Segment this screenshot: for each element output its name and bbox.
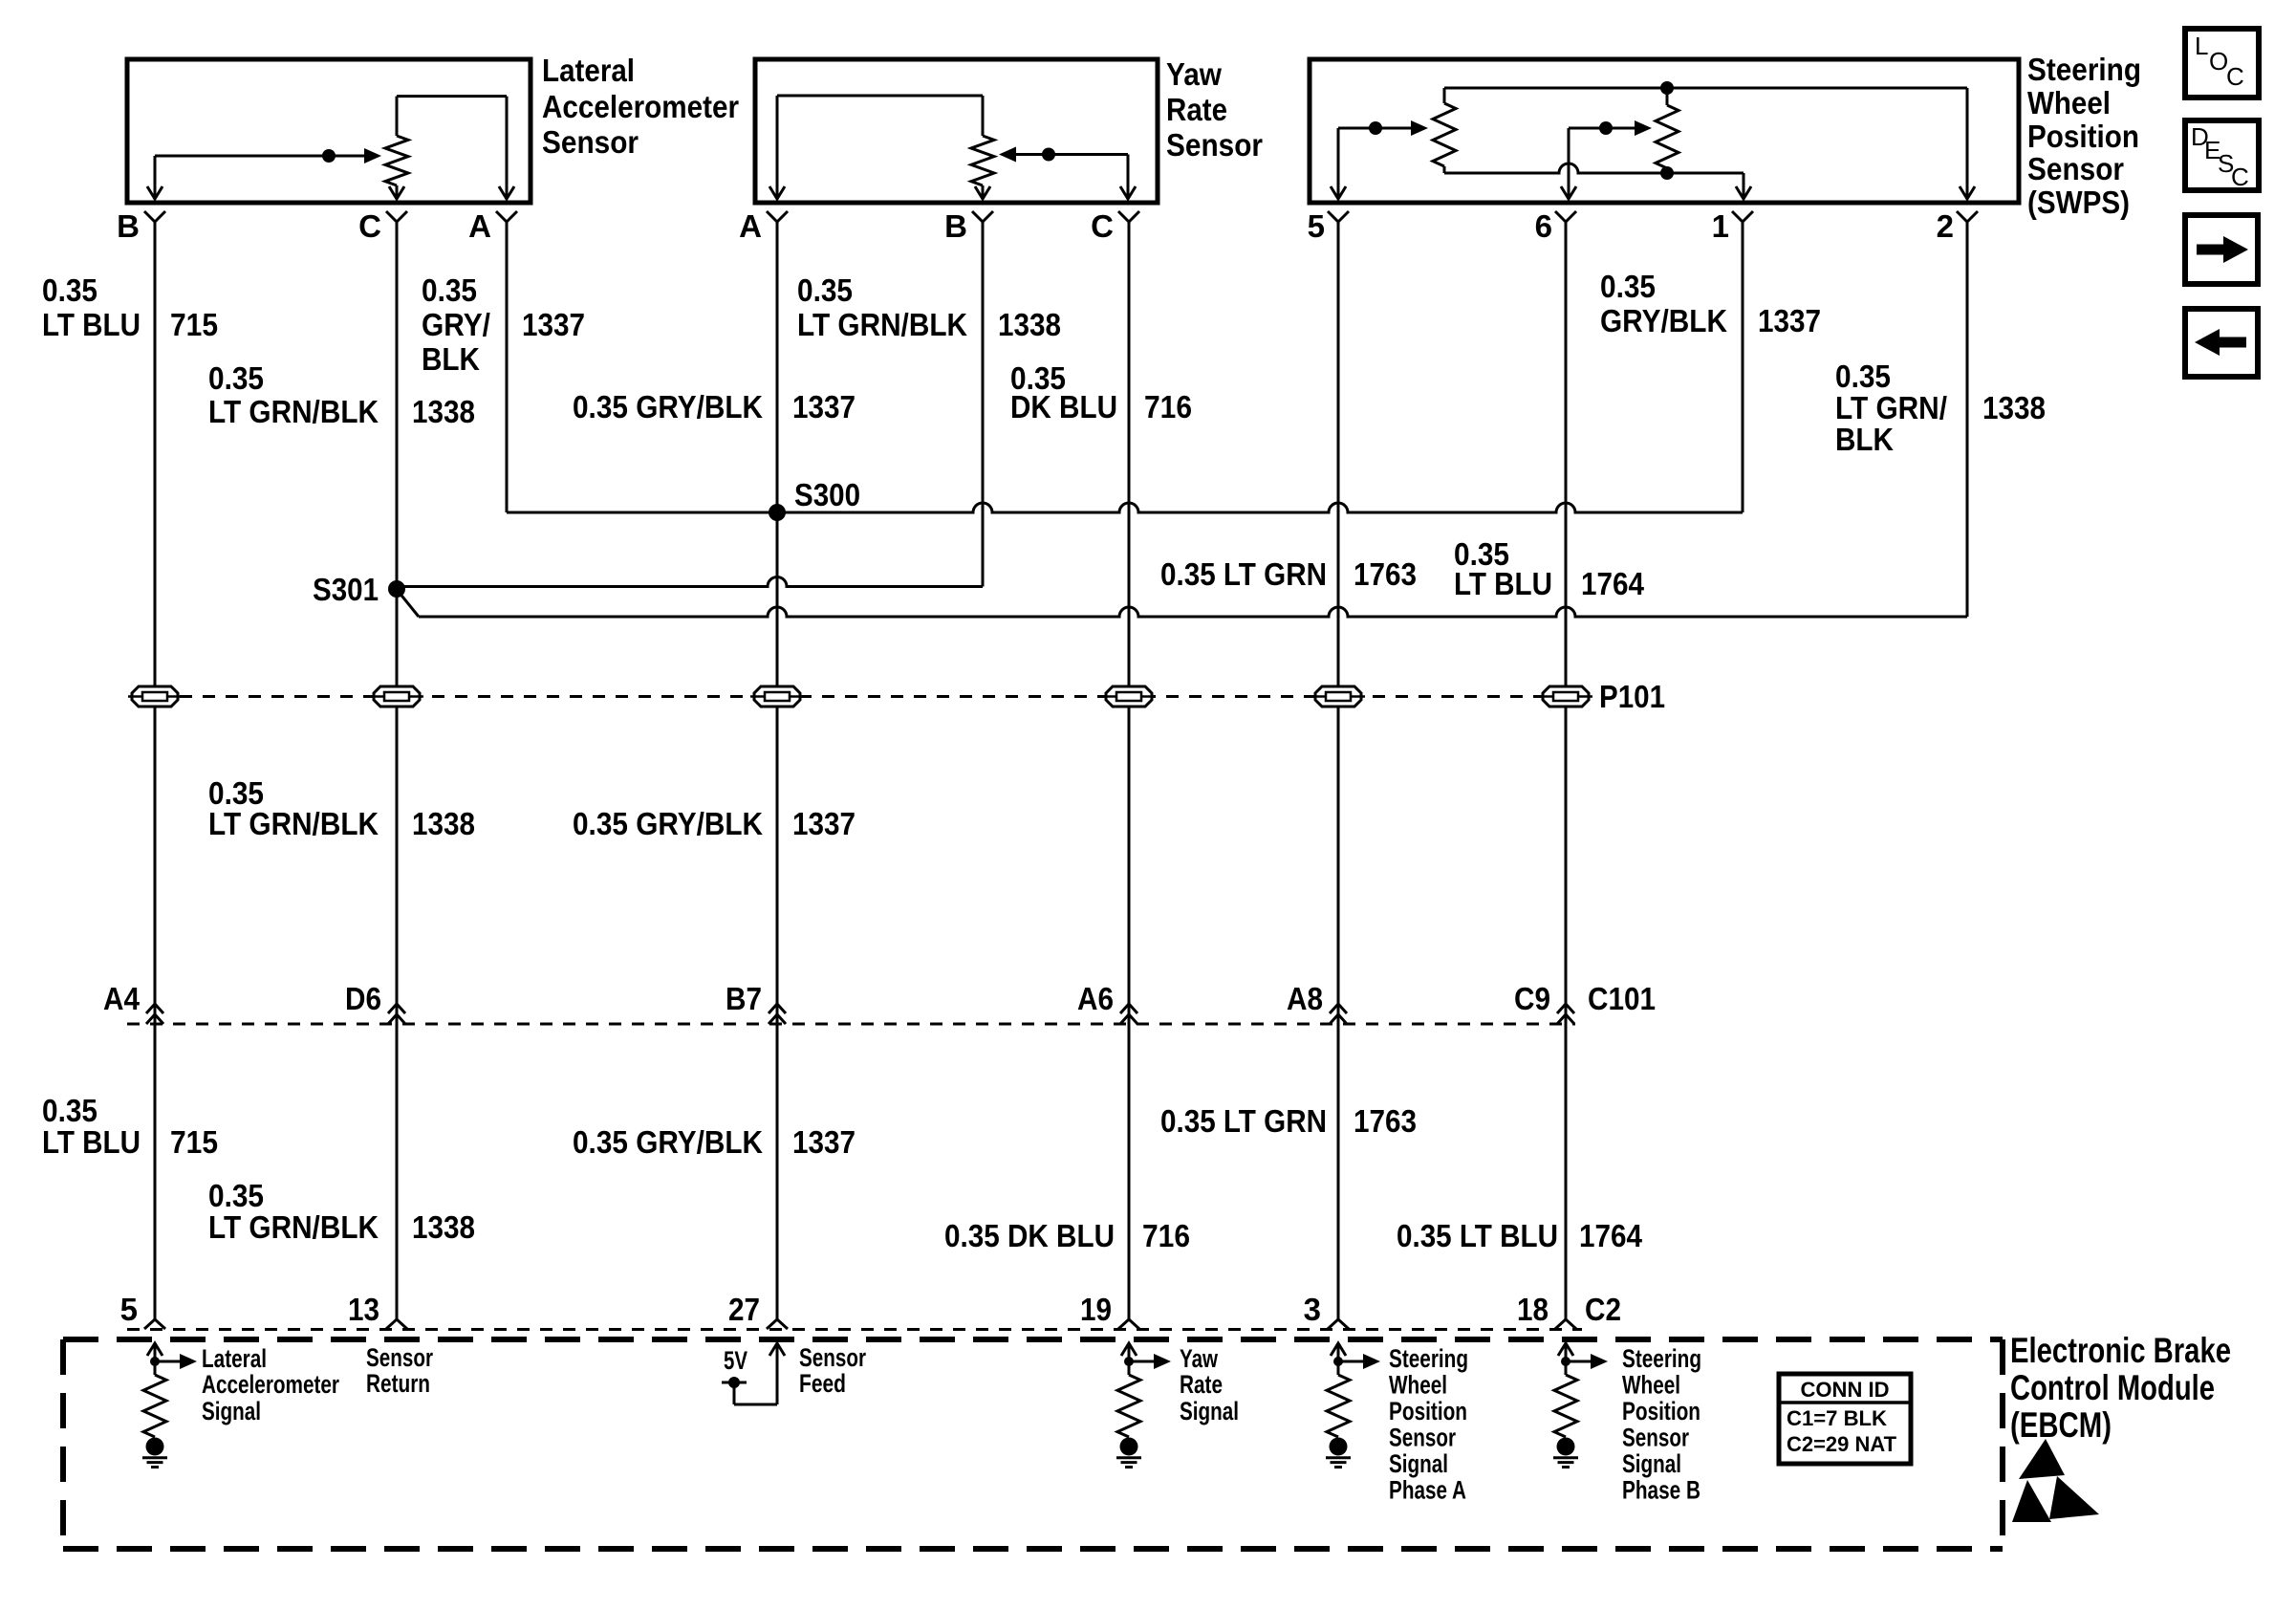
label 5V <box>724 1346 747 1375</box>
connector C101 chevrons pin A6 <box>1120 1004 1137 1024</box>
svg-text:D6: D6 <box>345 981 381 1016</box>
svg-text:Signal: Signal <box>1180 1397 1239 1425</box>
label S300 <box>794 477 860 512</box>
connector fork below yaw pin B <box>972 211 993 231</box>
arrow into box bottom at SWPS pin 6 <box>1561 186 1576 199</box>
EBCM 5V sensor feed (pin 27) <box>722 1343 785 1404</box>
connector fork below SWPS pin 2 <box>1957 211 1978 231</box>
arrowhead wiper (lat accel) <box>364 148 381 163</box>
arrow into box bottom at SWPS pin 1 <box>1736 186 1751 199</box>
connector fork below yaw pin C <box>1118 211 1139 231</box>
svg-text:A: A <box>468 208 491 244</box>
connector P101 pass-through symbol A <box>128 686 182 707</box>
svg-text:5: 5 <box>120 1292 138 1327</box>
svg-text:LT GRN/: LT GRN/ <box>1835 390 1947 425</box>
svg-text:0.35: 0.35 <box>42 272 97 308</box>
label 0.35 LT GRN (x7 low) <box>1160 1103 1327 1139</box>
label 0.35 LT GRN/BLK (x2 low) <box>208 1178 379 1245</box>
svg-text:5: 5 <box>1308 208 1325 244</box>
junction dot top rail (SWPS) <box>1660 81 1674 95</box>
svg-text:0.35: 0.35 <box>1835 359 1891 394</box>
connector fork EBCM pin 18 <box>1555 1319 1576 1329</box>
svg-text:P101: P101 <box>1599 679 1665 714</box>
EBCM yaw rate signal input (pin 19) <box>1116 1343 1171 1468</box>
label 1337 (yaw A) <box>792 389 856 424</box>
junction dot on yaw wiper wire <box>1042 148 1055 162</box>
yaw rate sensor box <box>755 59 1158 203</box>
EBCM lateral accelerometer signal input (pin 5) <box>142 1343 197 1468</box>
svg-text:Sensor: Sensor <box>1166 127 1263 163</box>
label S301 <box>313 572 379 607</box>
label 715 (top) <box>170 307 218 342</box>
svg-text:A: A <box>739 208 762 244</box>
svg-text:CONN ID: CONN ID <box>1801 1378 1890 1402</box>
svg-text:C101: C101 <box>1588 981 1656 1016</box>
wiper arrow (SWPS right) from pin 6 <box>1569 128 1636 197</box>
svg-text:A4: A4 <box>103 981 141 1016</box>
pin label D6 (C101) <box>345 981 381 1016</box>
connector C101 chevrons pin A8 <box>1330 1004 1347 1024</box>
svg-text:Feed: Feed <box>799 1369 846 1398</box>
svg-text:Position: Position <box>2027 119 2139 154</box>
svg-text:0.35 DK BLU: 0.35 DK BLU <box>944 1218 1115 1253</box>
svg-text:B: B <box>944 208 967 244</box>
svg-text:BLK: BLK <box>422 341 480 377</box>
label 0.35 DK BLU (yaw C) <box>1010 360 1117 424</box>
svg-text:C: C <box>358 208 381 244</box>
svg-text:0.35: 0.35 <box>208 360 264 396</box>
svg-text:1338: 1338 <box>412 806 475 841</box>
svg-text:Sensor: Sensor <box>2027 151 2124 186</box>
arrowhead wiper (yaw rate) <box>999 147 1016 163</box>
svg-text:GRY/: GRY/ <box>422 307 490 342</box>
pin letter A (yaw) <box>739 208 762 244</box>
wire SWPS bottom rail to pin 1 <box>1444 163 1744 197</box>
svg-text:BLK: BLK <box>1835 422 1894 457</box>
junction dot bottom rail (SWPS) <box>1660 166 1674 180</box>
label Yaw Rate Signal <box>1180 1344 1239 1425</box>
label 1338 (lat C top) <box>412 394 475 429</box>
wire S301 upper run 1338 <box>397 577 983 587</box>
wiper arrow (yaw rate) from pin C <box>1012 155 1128 198</box>
steering wheel position sensor box <box>1310 59 2019 203</box>
svg-text:(SWPS): (SWPS) <box>2027 185 2130 220</box>
pin letter C (lat) <box>358 208 381 244</box>
connector fork below SWPS pin 5 <box>1328 211 1349 231</box>
svg-text:Signal: Signal <box>1622 1449 1681 1478</box>
potentiometer (lateral accel sensor) <box>385 97 408 197</box>
svg-text:0.35: 0.35 <box>42 1093 97 1128</box>
svg-text:1337: 1337 <box>1758 303 1821 338</box>
label 716 (yaw C) <box>1144 389 1192 424</box>
svg-text:0.35 LT GRN: 0.35 LT GRN <box>1160 1103 1327 1139</box>
svg-text:27: 27 <box>728 1292 760 1327</box>
connector P101 dashed line <box>134 695 1590 698</box>
svg-text:S300: S300 <box>794 477 860 512</box>
svg-text:1337: 1337 <box>792 389 856 424</box>
svg-text:0.35 GRY/BLK: 0.35 GRY/BLK <box>573 1124 763 1160</box>
arrow into box bottom at lat B pin <box>147 186 162 199</box>
svg-text:1764: 1764 <box>1579 1218 1643 1253</box>
connector C101 chevrons pin B7 <box>769 1004 786 1024</box>
pin label A4 (C101) <box>103 981 141 1016</box>
svg-text:C: C <box>2226 62 2244 91</box>
svg-text:Lateral: Lateral <box>202 1344 267 1373</box>
svg-text:Steering: Steering <box>1389 1344 1468 1373</box>
label 0.35 GRY/BLK (x4 low) <box>573 1124 763 1160</box>
svg-text:1338: 1338 <box>1982 390 2046 425</box>
pin number 13 (EBCM) <box>348 1292 379 1327</box>
label Sensor Return <box>366 1343 433 1398</box>
label 0.35 DK BLU (x6 low) <box>944 1218 1115 1253</box>
label 0.35 LT BLU (x8 low) <box>1397 1218 1558 1253</box>
svg-text:Signal: Signal <box>1389 1449 1448 1478</box>
junction dot on lat wiper wire <box>322 149 336 163</box>
wire 1338 LT GRN/BLK SWPS-2 drop <box>1966 231 1969 617</box>
pin letter B (yaw) <box>944 208 967 244</box>
svg-text:1763: 1763 <box>1354 556 1417 592</box>
svg-text:C9: C9 <box>1514 981 1550 1016</box>
svg-text:715: 715 <box>170 307 218 342</box>
connector P101 pass-through symbol D <box>1102 686 1156 707</box>
label 0.35 LT GRN/BLK (yaw B) <box>797 272 967 342</box>
wire 716 DK BLU yaw-C to EBCM-19 <box>1128 231 1131 1319</box>
lateral accelerometer sensor box <box>127 59 531 203</box>
connector fork EBCM pin 3 <box>1328 1319 1349 1329</box>
wire 1763 LT GRN SWPS-5 to EBCM-3 <box>1337 231 1340 1319</box>
pin number 1 (SWPS) <box>1712 208 1729 244</box>
wiper arrow (lat accel) from pin B <box>155 156 370 197</box>
svg-text:LT BLU: LT BLU <box>42 1124 141 1160</box>
connector fork below lat pin A <box>496 211 517 231</box>
arrow into box bottom at SWPS pin 5 <box>1331 186 1346 199</box>
svg-text:1338: 1338 <box>412 394 475 429</box>
svg-text:Sensor: Sensor <box>366 1343 433 1372</box>
label Steering Wheel Position Sensor (SWPS) <box>2027 52 2141 220</box>
label 1764 (mid) <box>1581 566 1645 601</box>
svg-text:B: B <box>117 208 140 244</box>
EBCM SWPS phase A input (pin 3) <box>1326 1343 1380 1468</box>
svg-text:A6: A6 <box>1077 981 1114 1016</box>
EBCM SWPS phase B input (pin 18) <box>1553 1343 1608 1468</box>
arrowhead wiper right (SWPS) <box>1635 120 1652 136</box>
svg-text:DK BLU: DK BLU <box>1010 389 1117 424</box>
svg-text:0.35 GRY/BLK: 0.35 GRY/BLK <box>573 389 763 424</box>
label 1338 (x2 low) <box>412 1209 475 1245</box>
connector C101 chevrons pin C9 <box>1557 1004 1574 1024</box>
junction dot on SWPS pin5 wiper <box>1369 121 1382 135</box>
CONN ID table <box>1779 1374 1911 1464</box>
svg-text:A8: A8 <box>1287 981 1323 1016</box>
svg-text:1337: 1337 <box>792 806 856 841</box>
svg-text:0.35: 0.35 <box>208 1178 264 1213</box>
connector C101 chevrons pin A4 <box>146 1004 163 1024</box>
svg-text:L: L <box>2195 32 2208 60</box>
svg-text:1337: 1337 <box>792 1124 856 1160</box>
EBCM module dashed box <box>63 1339 2003 1549</box>
svg-text:B7: B7 <box>726 981 762 1016</box>
connector fork below SWPS pin 6 <box>1555 211 1576 231</box>
pin number 6 (SWPS) <box>1535 208 1552 244</box>
wire S301 lower run 1338 to SWPS-2 <box>399 592 1967 617</box>
svg-text:Yaw: Yaw <box>1180 1344 1219 1373</box>
svg-text:1764: 1764 <box>1581 566 1645 601</box>
label 1764 (x8 low) <box>1579 1218 1643 1253</box>
svg-text:C: C <box>2231 163 2249 191</box>
svg-text:Steering: Steering <box>1622 1344 1701 1373</box>
label 1338 (x2 mid) <box>412 806 475 841</box>
label C101 <box>1588 981 1656 1016</box>
svg-text:716: 716 <box>1142 1218 1190 1253</box>
svg-text:0.35 GRY/BLK: 0.35 GRY/BLK <box>573 806 763 841</box>
connector fork EBCM pin 27 <box>767 1319 788 1329</box>
wire 1337 GRY/BLK yaw-A to EBCM-27 <box>776 231 779 1319</box>
connector fork below lat pin B <box>144 211 165 231</box>
pin number 19 (EBCM) <box>1080 1292 1112 1327</box>
label 1763 (mid) <box>1354 556 1417 592</box>
svg-text:0.35: 0.35 <box>797 272 853 308</box>
svg-text:Steering: Steering <box>2027 52 2141 87</box>
svg-text:Wheel: Wheel <box>1389 1371 1447 1400</box>
svg-text:Wheel: Wheel <box>2027 85 2111 120</box>
svg-text:LT BLU: LT BLU <box>42 307 141 342</box>
pin letter B (lat) <box>117 208 140 244</box>
connector C101 chevrons pin D6 <box>388 1004 405 1024</box>
arrow into box bottom at lat C pin <box>389 186 404 199</box>
junction dot on SWPS pin6 wiper <box>1599 121 1613 135</box>
svg-text:Signal: Signal <box>202 1397 261 1425</box>
label 0.35 GRY/BLK (yaw A) <box>573 389 763 424</box>
label 0.35 LT BLU (top) <box>42 272 141 342</box>
svg-text:1338: 1338 <box>998 307 1061 342</box>
ESD sensitivity symbol <box>2012 1439 2099 1522</box>
connector fork EBCM pin 19 <box>1118 1319 1139 1329</box>
arrow into box bottom at yaw A pin <box>769 186 785 199</box>
pin number 5 (EBCM) <box>120 1292 138 1327</box>
label 1337 (SWPS 1) <box>1758 303 1821 338</box>
splice S300 junction dot <box>769 504 786 521</box>
svg-text:6: 6 <box>1535 208 1552 244</box>
wire S300 splice run 1337 <box>507 503 1743 512</box>
svg-text:Position: Position <box>1622 1397 1700 1425</box>
pin label C9 (C101) <box>1514 981 1550 1016</box>
label 0.35 GRY/BLK (lat A) <box>422 272 490 377</box>
svg-text:Electronic Brake: Electronic Brake <box>2010 1331 2231 1370</box>
label 716 (x6 low) <box>1142 1218 1190 1253</box>
pin number 5 (SWPS) <box>1308 208 1325 244</box>
label 0.35 LT BLU (x1 low) <box>42 1093 141 1160</box>
svg-text:C: C <box>1091 208 1114 244</box>
connector fork below SWPS pin 1 <box>1732 211 1753 231</box>
potentiometer (yaw rate sensor) <box>971 96 994 197</box>
label 1338 (SWPS 2) <box>1982 390 2046 425</box>
pin label A6 (C101) <box>1077 981 1114 1016</box>
label Yaw Rate Sensor <box>1166 56 1263 163</box>
svg-text:Yaw: Yaw <box>1166 56 1222 92</box>
connector P101 pass-through symbol C <box>750 686 804 707</box>
svg-text:18: 18 <box>1517 1292 1549 1327</box>
svg-text:Rate: Rate <box>1180 1370 1223 1399</box>
pin label B7 (C101) <box>726 981 762 1016</box>
potentiometer R-left (SWPS) <box>1433 88 1456 173</box>
label Sensor Feed <box>799 1343 866 1398</box>
label 0.35 LT BLU (mid) <box>1454 536 1552 601</box>
svg-text:1: 1 <box>1712 208 1729 244</box>
splice S301 junction dot <box>388 580 405 598</box>
connector fork EBCM pin 5 <box>144 1319 165 1329</box>
pin number 18 (EBCM) <box>1517 1292 1549 1327</box>
svg-text:C2=29 NAT: C2=29 NAT <box>1787 1432 1897 1456</box>
svg-text:1338: 1338 <box>412 1209 475 1245</box>
wiper arrow (SWPS left) from pin 5 <box>1338 128 1413 197</box>
label Lateral Accelerometer Sensor <box>542 53 739 160</box>
wire 1338 LT GRN/BLK yaw-B drop <box>982 231 985 587</box>
arrow into box bottom at yaw B pin <box>975 186 990 199</box>
svg-text:Control Module: Control Module <box>2010 1368 2215 1407</box>
LOC nav box <box>2185 29 2259 98</box>
svg-text:Lateral: Lateral <box>542 53 635 88</box>
wire yaw pin A inner <box>777 96 983 197</box>
arrow into box bottom at yaw C pin <box>1120 186 1136 199</box>
label 715 (x1 low) <box>170 1124 218 1160</box>
connector P101 pass-through symbol E <box>1311 686 1365 707</box>
arrowhead wiper left (SWPS) <box>1411 120 1428 136</box>
svg-text:Sensor: Sensor <box>799 1343 866 1372</box>
svg-text:S301: S301 <box>313 572 379 607</box>
left arrow nav box <box>2185 309 2258 377</box>
DESC nav box <box>2185 120 2259 191</box>
wire 1764 LT BLU SWPS-6 to EBCM-18 <box>1565 231 1568 1319</box>
pin letter C (yaw) <box>1091 208 1114 244</box>
label 0.35 GRY/BLK (SWPS 1) <box>1600 269 1727 338</box>
svg-text:Sensor: Sensor <box>1622 1424 1689 1452</box>
label Steering Wheel Position Sensor Signal Phase A <box>1389 1344 1468 1505</box>
wire lat inner top to pin A <box>397 97 507 197</box>
svg-text:Phase B: Phase B <box>1622 1476 1700 1505</box>
svg-text:LT GRN/BLK: LT GRN/BLK <box>208 1209 379 1245</box>
label 1337 (x4 mid) <box>792 806 856 841</box>
svg-text:1337: 1337 <box>522 307 585 342</box>
svg-text:Phase A: Phase A <box>1389 1476 1466 1505</box>
arrow into box bottom at SWPS pin 2 <box>1960 186 1975 199</box>
wire 715 LT BLU lat-B to EBCM-5 <box>154 231 157 1319</box>
svg-text:GRY/BLK: GRY/BLK <box>1600 303 1727 338</box>
label 1338 (yaw B) <box>998 307 1061 342</box>
connector fork below lat pin C <box>386 211 407 231</box>
svg-text:C2: C2 <box>1585 1292 1621 1327</box>
pin number 3 (EBCM) <box>1304 1292 1321 1327</box>
svg-text:Accelerometer: Accelerometer <box>542 89 739 124</box>
potentiometer R-right (SWPS) <box>1656 88 1679 173</box>
svg-text:Position: Position <box>1389 1397 1467 1425</box>
label 0.35 LT GRN (mid) <box>1160 556 1327 592</box>
svg-text:(EBCM): (EBCM) <box>2010 1405 2112 1445</box>
svg-text:715: 715 <box>170 1124 218 1160</box>
svg-text:0.35 LT GRN: 0.35 LT GRN <box>1160 556 1327 592</box>
label 0.35 GRY/BLK (x4 mid) <box>573 806 763 841</box>
svg-text:1763: 1763 <box>1354 1103 1417 1139</box>
svg-text:Rate: Rate <box>1166 92 1227 127</box>
svg-text:Wheel: Wheel <box>1622 1371 1680 1400</box>
svg-text:Return: Return <box>366 1369 430 1398</box>
svg-text:0.35 LT BLU: 0.35 LT BLU <box>1397 1218 1558 1253</box>
pin letter A (lat) <box>468 208 491 244</box>
svg-text:2: 2 <box>1937 208 1954 244</box>
label 1337 (lat A) <box>522 307 585 342</box>
connector C2 dashed line <box>127 1328 1582 1331</box>
label 0.35 LT GRN/BLK (x2 mid) <box>208 775 379 841</box>
label Electronic Brake Control Module (EBCM) <box>2010 1331 2231 1445</box>
label P101 <box>1599 679 1665 714</box>
label Lateral Accelerometer Signal <box>202 1344 339 1425</box>
wire 1338 LT GRN/BLK lat-C to EBCM-13 <box>396 231 399 1319</box>
connector fork EBCM pin 13 <box>386 1319 407 1329</box>
wire SWPS top rail to pin 2 <box>1444 88 1967 197</box>
pin number 2 (SWPS) <box>1937 208 1954 244</box>
pin number 27 (EBCM) <box>728 1292 760 1327</box>
svg-text:LT GRN/BLK: LT GRN/BLK <box>797 307 967 342</box>
arrow into box bottom at lat A pin <box>499 186 514 199</box>
svg-text:5V: 5V <box>724 1346 747 1375</box>
pin label A8 (C101) <box>1287 981 1323 1016</box>
label 0.35 LT GRN/BLK (SWPS 2) <box>1835 359 1947 457</box>
wire 1337 GRY/BLK SWPS-1 drop <box>1742 231 1744 512</box>
svg-text:Sensor: Sensor <box>1389 1424 1456 1452</box>
connector C101 dashed line <box>127 1023 1575 1026</box>
svg-text:Accelerometer: Accelerometer <box>202 1370 339 1399</box>
svg-text:LT BLU: LT BLU <box>1454 566 1552 601</box>
right arrow nav box <box>2185 215 2258 284</box>
svg-text:19: 19 <box>1080 1292 1112 1327</box>
connector P101 pass-through symbol B <box>370 686 423 707</box>
connector fork below yaw pin A <box>767 211 788 231</box>
svg-text:Sensor: Sensor <box>542 124 639 160</box>
svg-text:3: 3 <box>1304 1292 1321 1327</box>
wire 1337 GRY/BLK lat-A drop <box>506 231 509 512</box>
svg-text:LT GRN/BLK: LT GRN/BLK <box>208 394 379 429</box>
svg-text:13: 13 <box>348 1292 379 1327</box>
label Steering Wheel Position Sensor Signal Phase B <box>1622 1344 1701 1505</box>
svg-text:0.35: 0.35 <box>1600 269 1656 304</box>
svg-text:C1=7 BLK: C1=7 BLK <box>1787 1406 1887 1430</box>
label C2 <box>1585 1292 1621 1327</box>
label 0.35 LT GRN/BLK (lat C top) <box>208 360 379 429</box>
label 1763 (x7 low) <box>1354 1103 1417 1139</box>
label 1337 (x4 low) <box>792 1124 856 1160</box>
svg-text:0.35: 0.35 <box>422 272 477 308</box>
connector P101 pass-through symbol F <box>1539 686 1592 707</box>
svg-text:716: 716 <box>1144 389 1192 424</box>
svg-text:LT GRN/BLK: LT GRN/BLK <box>208 806 379 841</box>
